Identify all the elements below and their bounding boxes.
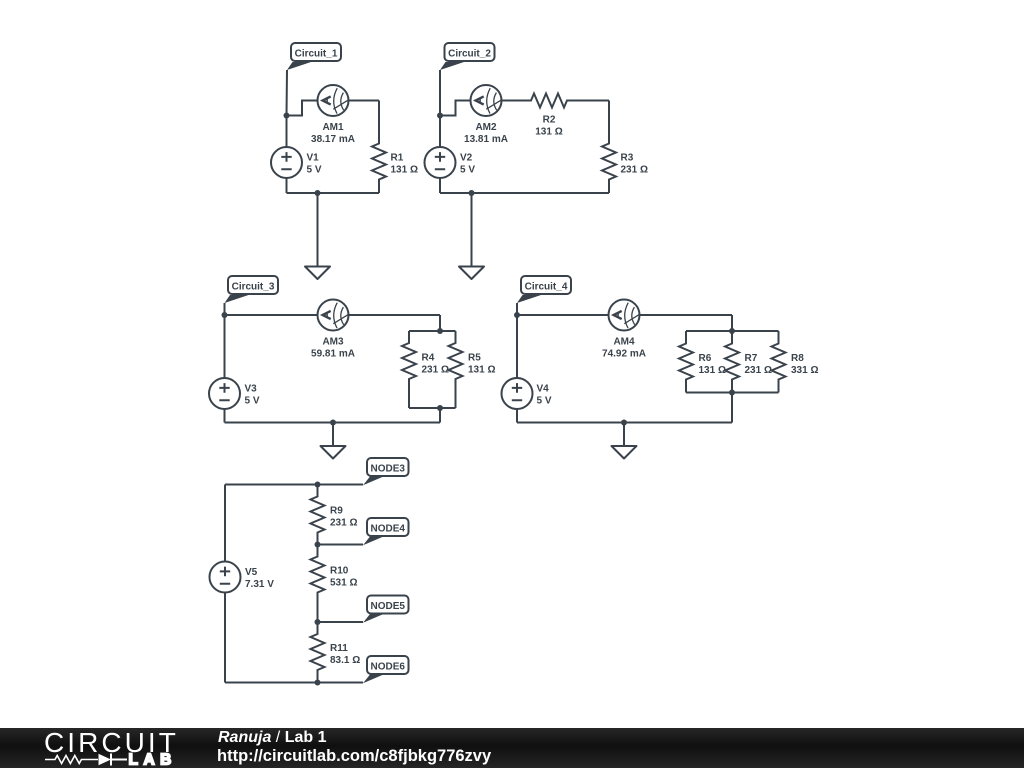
wire to ground C1 bbox=[317, 193, 319, 267]
label R8 value bbox=[791, 353, 818, 376]
wire to ground C4 bbox=[623, 423, 625, 447]
ammeter AM3 bbox=[318, 300, 349, 331]
svg-text:5 V: 5 V bbox=[307, 165, 322, 176]
svg-text:NODE6: NODE6 bbox=[371, 662, 406, 673]
label R3 value bbox=[621, 153, 648, 176]
voltage source V2 bbox=[425, 147, 456, 178]
footer url bbox=[217, 747, 491, 766]
svg-text:NODE5: NODE5 bbox=[371, 601, 406, 612]
wire to NODE5 flag bbox=[318, 621, 364, 623]
label V5 value bbox=[245, 567, 274, 590]
svg-text:V5: V5 bbox=[245, 567, 258, 578]
wire flag Circuit_4 to node bbox=[516, 303, 518, 315]
svg-text:R5: R5 bbox=[468, 353, 481, 364]
label R7 value bbox=[745, 353, 772, 376]
junction C3 bottom bbox=[330, 420, 336, 426]
node NODE4 junction bbox=[315, 542, 321, 548]
svg-text:5 V: 5 V bbox=[537, 396, 552, 407]
voltage source V4 bbox=[502, 378, 533, 409]
resistor R2 bbox=[517, 94, 581, 108]
wire R6R7R8 bottom bar bbox=[686, 392, 779, 394]
wire to ground C3 bbox=[332, 423, 334, 447]
svg-text:Circuit_4: Circuit_4 bbox=[525, 282, 568, 293]
ammeter AM1 bbox=[318, 85, 349, 116]
label R4 value bbox=[422, 353, 449, 376]
wire to NODE4 flag bbox=[318, 544, 364, 546]
wire node to V2 bbox=[439, 116, 441, 148]
wire V5 top rail bbox=[225, 484, 363, 486]
svg-text:V3: V3 bbox=[245, 384, 258, 395]
footer bar bbox=[0, 728, 1024, 768]
label R11 value bbox=[330, 643, 360, 666]
svg-text:131 Ω: 131 Ω bbox=[699, 365, 726, 376]
svg-text:R11: R11 bbox=[330, 643, 348, 654]
CircuitLab logo bbox=[0, 728, 190, 768]
wire to ground C2 bbox=[471, 193, 473, 267]
svg-text:131 Ω: 131 Ω bbox=[391, 165, 418, 176]
wire V4 to bottom bbox=[516, 409, 518, 423]
resistor R8 bbox=[772, 331, 786, 393]
svg-text:74.92 mA: 74.92 mA bbox=[602, 349, 646, 360]
ground C3 bbox=[321, 446, 346, 459]
svg-text:R6: R6 bbox=[699, 353, 712, 364]
net flag Circuit_2 bbox=[440, 43, 495, 70]
resistor R11 bbox=[311, 622, 325, 683]
label R1 value bbox=[391, 153, 418, 176]
junction C4 bottom bbox=[621, 420, 627, 426]
wire rail to V5 bbox=[224, 485, 226, 562]
svg-text:AM4: AM4 bbox=[613, 337, 635, 348]
label R10 value bbox=[330, 566, 357, 589]
svg-text:V1: V1 bbox=[307, 153, 320, 164]
svg-text:NODE4: NODE4 bbox=[371, 524, 406, 535]
wire node to AM1 bbox=[287, 101, 318, 116]
wire V1 to bottom bbox=[286, 178, 288, 193]
wire V5 to bottom rail bbox=[224, 593, 226, 683]
wire V2 to bottom bbox=[439, 178, 441, 193]
svg-text:R4: R4 bbox=[422, 353, 435, 364]
svg-text:R2: R2 bbox=[543, 115, 556, 126]
wire node to AM2 bbox=[440, 101, 471, 116]
wire R4R5 top bar bbox=[409, 330, 456, 332]
label R6 value bbox=[699, 353, 726, 376]
voltage source V1 bbox=[271, 147, 302, 178]
net flag Circuit_1 bbox=[287, 43, 341, 70]
svg-text:V4: V4 bbox=[537, 384, 550, 395]
label AM3 value bbox=[311, 337, 355, 360]
wire bank to bottom bbox=[731, 393, 733, 423]
voltage source V5 bbox=[210, 562, 241, 593]
label AM4 value bbox=[602, 337, 646, 360]
svg-text:38.17 mA: 38.17 mA bbox=[311, 134, 355, 145]
wire R2 to right rail bbox=[581, 100, 609, 102]
junction C3 top-left bbox=[222, 312, 228, 318]
net flag NODE5 bbox=[363, 596, 409, 623]
label R9 value bbox=[330, 506, 357, 529]
svg-text:Circuit_1: Circuit_1 bbox=[295, 49, 338, 60]
svg-text:R10: R10 bbox=[330, 566, 349, 577]
label R2 value bbox=[535, 115, 562, 138]
net flag NODE6 bbox=[363, 656, 409, 683]
svg-text:7.31 V: 7.31 V bbox=[245, 579, 274, 590]
node NODE5 junction bbox=[315, 619, 321, 625]
wire down to R4R5 top bar bbox=[439, 315, 441, 331]
svg-text:5 V: 5 V bbox=[460, 165, 475, 176]
resistor R7 bbox=[725, 331, 739, 393]
label V4 value bbox=[537, 384, 552, 407]
wire node to V1 bbox=[286, 116, 288, 148]
label R5 value bbox=[468, 353, 495, 376]
ammeter AM2 bbox=[471, 85, 502, 116]
resistor R4 bbox=[402, 331, 416, 408]
svg-text:R1: R1 bbox=[391, 153, 404, 164]
svg-text:83.1 Ω: 83.1 Ω bbox=[330, 655, 360, 666]
wire flag Circuit_3 to node bbox=[224, 303, 226, 315]
net flag NODE4 bbox=[363, 518, 409, 545]
resistor R5 bbox=[449, 331, 463, 408]
wire flag Circuit_1 to node bbox=[286, 70, 289, 116]
junction C4 top-left bbox=[514, 312, 520, 318]
svg-text:231 Ω: 231 Ω bbox=[330, 518, 357, 529]
wire V3 to bottom bbox=[224, 409, 226, 423]
resistor R1 bbox=[372, 101, 386, 194]
footer title bbox=[218, 729, 326, 747]
svg-text:R3: R3 bbox=[621, 153, 634, 164]
logo resistor symbol bbox=[45, 756, 98, 764]
wire AM2 to R2 bbox=[502, 100, 518, 102]
svg-text:131 Ω: 131 Ω bbox=[535, 127, 562, 138]
svg-text:531 Ω: 531 Ω bbox=[330, 578, 357, 589]
node NODE3 junction bbox=[315, 482, 321, 488]
svg-text:AM3: AM3 bbox=[322, 337, 344, 348]
ground C4 bbox=[612, 446, 637, 459]
svg-text:231 Ω: 231 Ω bbox=[745, 365, 772, 376]
ammeter AM4 bbox=[609, 300, 640, 331]
net flag NODE3 bbox=[363, 458, 409, 485]
ground C2 bbox=[459, 267, 484, 280]
junction R6R7R8 top bbox=[729, 328, 735, 334]
wire C4 bottom bbox=[517, 422, 732, 424]
svg-text:231 Ω: 231 Ω bbox=[422, 365, 449, 376]
svg-text:R7: R7 bbox=[745, 353, 758, 364]
svg-text:LAB: LAB bbox=[129, 752, 177, 768]
wire node to V3 bbox=[224, 315, 226, 378]
net flag Circuit_4 bbox=[517, 276, 571, 303]
junction C1 bottom bbox=[315, 190, 321, 196]
svg-text:331 Ω: 331 Ω bbox=[791, 365, 818, 376]
wire C3 bottom bbox=[225, 422, 441, 424]
svg-text:59.81 mA: 59.81 mA bbox=[311, 349, 355, 360]
label V2 value bbox=[460, 153, 475, 176]
wire node to V4 bbox=[516, 315, 518, 378]
junction R4R5 top bbox=[437, 328, 443, 334]
svg-text:R9: R9 bbox=[330, 506, 343, 517]
wire C1 bottom bbox=[287, 192, 380, 194]
wire R4R5 to bottom bbox=[439, 408, 441, 423]
label V3 value bbox=[245, 384, 260, 407]
svg-text:Circuit_2: Circuit_2 bbox=[448, 49, 491, 60]
junction C1 top-left bbox=[284, 113, 290, 119]
resistor R10 bbox=[311, 545, 325, 623]
svg-text:NODE3: NODE3 bbox=[371, 464, 406, 475]
label V1 value bbox=[307, 153, 322, 176]
wire R6R7R8 top bar bbox=[686, 330, 779, 332]
svg-text:AM1: AM1 bbox=[322, 122, 344, 133]
junction R6R7R8 bottom bbox=[729, 390, 735, 396]
wire R4R5 bottom bar bbox=[409, 407, 456, 409]
junction R4R5 bottom bbox=[437, 405, 443, 411]
svg-text:AM2: AM2 bbox=[475, 122, 497, 133]
label AM1 value bbox=[311, 122, 355, 145]
net flag Circuit_3 bbox=[225, 276, 279, 303]
voltage source V3 bbox=[209, 378, 240, 409]
wire flag Circuit_2 to node bbox=[439, 70, 441, 116]
wire AM1 to R1 bbox=[349, 100, 380, 102]
wire node to AM3 bbox=[225, 314, 318, 316]
resistor R9 bbox=[311, 485, 325, 545]
svg-text:231 Ω: 231 Ω bbox=[621, 165, 648, 176]
svg-text:5 V: 5 V bbox=[245, 396, 260, 407]
node NODE6 junction bbox=[315, 680, 321, 686]
svg-text:13.81 mA: 13.81 mA bbox=[464, 134, 508, 145]
svg-text:R8: R8 bbox=[791, 353, 804, 364]
resistor R6 bbox=[679, 331, 693, 393]
wire down to R6R7R8 top bar bbox=[731, 315, 733, 331]
svg-text:Circuit_3: Circuit_3 bbox=[232, 282, 275, 293]
wire node to AM4 bbox=[517, 314, 609, 316]
junction C2 top-left bbox=[437, 113, 443, 119]
junction C2 bottom bbox=[469, 190, 475, 196]
wire V5 bottom rail bbox=[225, 682, 363, 684]
logo diode symbol bbox=[99, 754, 112, 766]
wire AM3 to parallel pair bbox=[349, 314, 441, 316]
resistor R3 bbox=[602, 101, 616, 194]
label AM2 value bbox=[464, 122, 508, 145]
svg-text:V2: V2 bbox=[460, 153, 473, 164]
wire AM4 to parallel bank bbox=[640, 314, 733, 316]
wire C2 bottom bbox=[440, 192, 609, 194]
svg-text:131 Ω: 131 Ω bbox=[468, 365, 495, 376]
ground C1 bbox=[305, 267, 330, 280]
